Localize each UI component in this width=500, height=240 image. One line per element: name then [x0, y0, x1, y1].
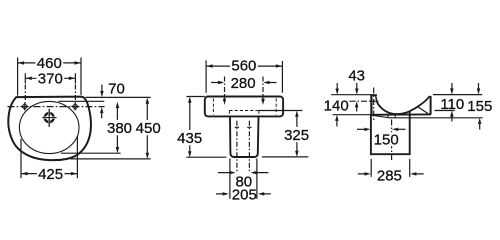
line C' [391, 117, 483, 119]
drain dash-dot [237, 121, 250, 172]
fixing hole arrows [225, 77, 264, 100]
425 ext lines [21, 136, 77, 178]
dim 370 [25, 73, 75, 103]
svg-text:425: 425 [38, 166, 63, 183]
svg-text:280: 280 [231, 75, 256, 92]
dim 560 [206, 60, 282, 92]
svg-text:110: 110 [440, 96, 464, 113]
dim 150 [357, 128, 367, 130]
slab [205, 97, 283, 117]
svg-text:380: 380 [107, 120, 132, 137]
svg-text:325: 325 [284, 127, 309, 144]
underside slope [372, 115, 391, 118]
205 ext bars [230, 159, 257, 199]
text knockout backgrounds [375, 132, 398, 146]
svg-text:70: 70 [108, 80, 125, 97]
pedestal side [371, 111, 410, 154]
svg-text:460: 460 [37, 55, 62, 72]
line A left [331, 94, 371, 96]
dim 380 [116, 105, 118, 151]
dim 70 arrows [101, 85, 103, 93]
bowl ellipse [19, 101, 79, 153]
dim 425 [21, 173, 77, 175]
floor ext right [262, 156, 308, 158]
svg-text:370: 370 [38, 71, 63, 88]
drain CL [391, 120, 393, 161]
svg-text:150: 150 [374, 132, 399, 149]
dim 325 [296, 113, 298, 154]
dim 435 [189, 99, 191, 154]
285 ext bars [371, 159, 410, 177]
bottom ext line 450 [71, 158, 151, 160]
svg-text:140: 140 [324, 97, 349, 114]
floor ext left [186, 156, 226, 158]
svg-text:560: 560 [231, 58, 256, 75]
line C left [333, 114, 371, 116]
dim 285 [358, 173, 424, 175]
basin profile side [370, 94, 372, 115]
43 arrows [356, 83, 358, 90]
dash-dot B [350, 100, 379, 102]
325 top ext [259, 110, 303, 112]
right tap hole [71, 103, 79, 111]
dim 450 [146, 100, 148, 156]
110 arrows [451, 83, 453, 90]
155 arrows [478, 83, 480, 90]
line B' [435, 110, 455, 112]
dim 280 [211, 82, 277, 84]
drain pipe edges [388, 115, 395, 118]
140 arrows [336, 83, 338, 90]
hidden dashes inside slab [213, 98, 276, 114]
faucet hole symbol [42, 109, 56, 127]
tap CL vertical dash-dot [373, 88, 375, 121]
left tap hole [21, 103, 29, 111]
dim 460 [18, 58, 81, 96]
svg-text:43: 43 [348, 68, 365, 85]
line A' right [433, 94, 482, 96]
svg-text:205: 205 [232, 186, 257, 203]
pedestal [230, 117, 259, 157]
435 top ext [186, 96, 204, 98]
bottom ext line 380 [61, 152, 121, 154]
dim 205 [216, 193, 271, 195]
diagonal drain edge [418, 107, 428, 114]
svg-text:285: 285 [377, 168, 402, 185]
svg-text:450: 450 [136, 120, 161, 137]
svg-text:435: 435 [177, 130, 202, 147]
bowl top tangent line (380 top ext) [59, 100, 105, 102]
top edge right ext line [86, 96, 151, 98]
dim 80 [218, 172, 268, 174]
svg-text:155: 155 [467, 98, 492, 115]
tap centerline dash-dot [8, 106, 105, 108]
basin outline (plan) [8, 97, 91, 161]
